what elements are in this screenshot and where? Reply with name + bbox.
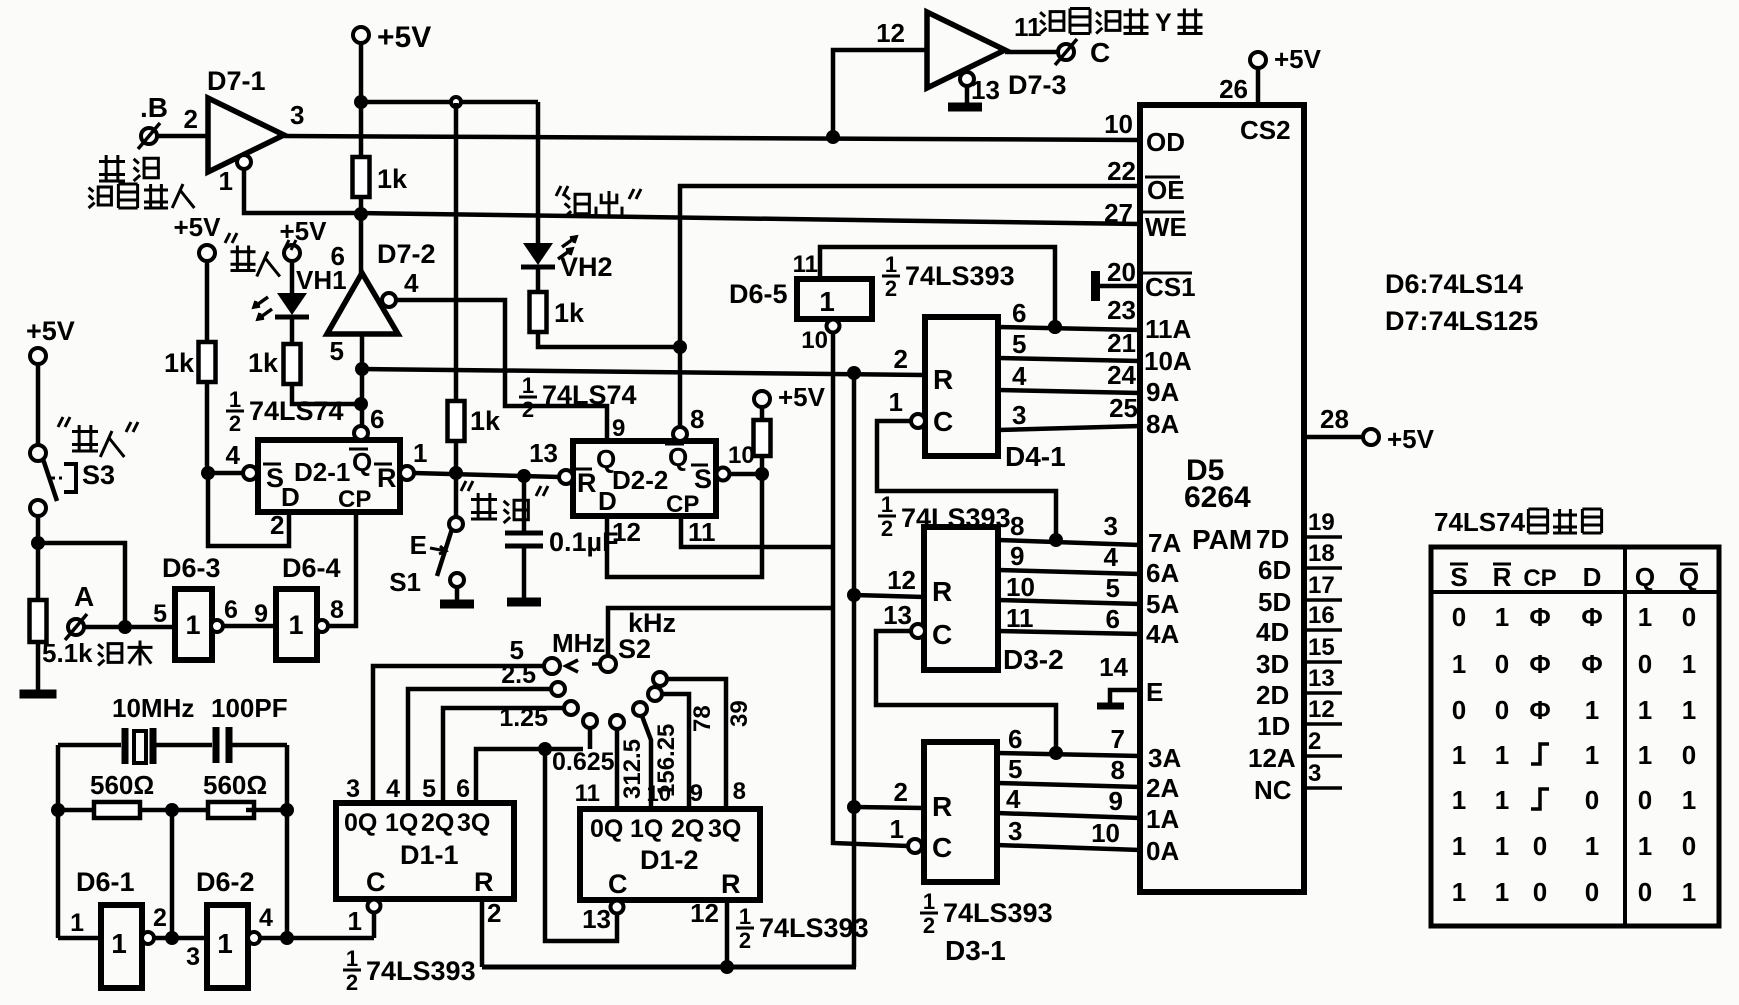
pin 1 bubble (clock of D1-1) xyxy=(368,900,381,913)
inverter D6-3 xyxy=(175,589,212,660)
svg-text:CS1: CS1 xyxy=(1145,272,1196,302)
svg-text:12: 12 xyxy=(876,18,905,48)
svg-text:CS2: CS2 xyxy=(1240,115,1291,145)
svg-text:10MHz: 10MHz xyxy=(112,693,194,723)
terminal +5V xyxy=(30,348,46,364)
svg-text:Q: Q xyxy=(668,442,688,472)
svg-text:8: 8 xyxy=(1111,755,1125,785)
wire xyxy=(36,516,41,600)
svg-text:1k: 1k xyxy=(248,348,279,378)
svg-text:11: 11 xyxy=(1014,12,1042,42)
svg-text:12: 12 xyxy=(612,517,641,547)
svg-text:1.25: 1.25 xyxy=(499,704,548,732)
svg-text:0.625: 0.625 xyxy=(552,748,615,776)
svg-text:2: 2 xyxy=(229,411,241,436)
svg-text:D1-1: D1-1 xyxy=(400,840,459,870)
svg-text:D: D xyxy=(1583,562,1602,592)
svg-text:14: 14 xyxy=(1099,652,1128,682)
svg-text:9: 9 xyxy=(612,415,625,442)
wire xyxy=(833,50,927,137)
wire 2A xyxy=(997,783,1140,787)
svg-text:0: 0 xyxy=(1638,877,1652,907)
svg-text:2: 2 xyxy=(184,104,198,134)
svg-text:D: D xyxy=(598,486,617,516)
svg-text:16: 16 xyxy=(1308,602,1335,629)
contact 39 xyxy=(653,672,667,686)
svg-text:5.1k: 5.1k xyxy=(42,638,93,668)
wire xyxy=(372,912,377,938)
pin 20 CS1 input xyxy=(1091,271,1100,301)
svg-text:8: 8 xyxy=(330,596,344,624)
svg-text:2D: 2D xyxy=(1256,680,1289,710)
svg-text:10A: 10A xyxy=(1144,346,1192,376)
contact 312.5 xyxy=(610,715,624,729)
svg-text:0: 0 xyxy=(1682,602,1696,632)
label 触发 (trigger) xyxy=(98,644,122,666)
svg-text:4: 4 xyxy=(259,904,273,932)
svg-text:1: 1 xyxy=(1452,785,1466,815)
svg-text:2: 2 xyxy=(894,777,908,807)
svg-text:2: 2 xyxy=(885,276,897,301)
svg-text:1: 1 xyxy=(923,889,935,914)
wire 1Q to 2.5MHz contact xyxy=(408,689,551,803)
pin 14 E tie xyxy=(1110,690,1140,704)
svg-text:OE: OE xyxy=(1147,175,1185,205)
inverter D6-4 xyxy=(276,589,317,660)
svg-text:2: 2 xyxy=(894,344,908,374)
wire xyxy=(56,745,61,938)
svg-text:1: 1 xyxy=(1585,695,1599,725)
svg-text:6: 6 xyxy=(1012,298,1026,328)
svg-text:560Ω: 560Ω xyxy=(90,770,154,800)
pin 13 bubble of D7-3 xyxy=(960,72,974,86)
svg-text:22: 22 xyxy=(1107,156,1136,186)
svg-text:1: 1 xyxy=(413,438,427,468)
wire xyxy=(244,169,358,213)
svg-text:27: 27 xyxy=(1104,198,1133,228)
svg-text:A: A xyxy=(74,581,94,612)
resistor 1k (pull-up on WE line) xyxy=(353,157,370,197)
svg-text:3: 3 xyxy=(1308,760,1321,787)
wire to clock of D1-1 xyxy=(260,936,374,941)
svg-text:.B: .B xyxy=(140,92,168,123)
svg-text:C: C xyxy=(366,867,386,897)
svg-text:1: 1 xyxy=(288,610,303,640)
svg-text:S: S xyxy=(694,464,712,494)
contact 78 xyxy=(648,687,662,701)
svg-text:1: 1 xyxy=(348,906,362,936)
terminal +5V xyxy=(199,245,215,261)
svg-text:Φ: Φ xyxy=(1581,602,1602,632)
svg-text:5A: 5A xyxy=(1146,589,1179,619)
svg-text:2Q: 2Q xyxy=(421,809,454,837)
svg-text:74LS393: 74LS393 xyxy=(905,261,1015,291)
svg-text:1k: 1k xyxy=(470,406,501,436)
wire OE net from Qbar of D2-2 xyxy=(680,186,1140,427)
svg-text:4: 4 xyxy=(1012,361,1027,391)
wire reset net xyxy=(414,473,560,477)
resistor 560 ohm (1) xyxy=(58,808,94,813)
node WE junction xyxy=(354,207,368,221)
svg-text:18: 18 xyxy=(1308,540,1335,567)
svg-text:3: 3 xyxy=(1008,816,1022,846)
wire xyxy=(292,384,361,404)
svg-text:kHz: kHz xyxy=(628,608,676,638)
svg-text:0: 0 xyxy=(1452,602,1466,632)
svg-text:+5V: +5V xyxy=(26,316,75,346)
svg-text:11: 11 xyxy=(793,251,818,278)
inverter D6-1 xyxy=(101,905,142,988)
wire 2Q to 1.25MHz contact xyxy=(443,708,564,803)
svg-text:Φ: Φ xyxy=(1529,695,1550,725)
svg-text:10: 10 xyxy=(801,327,828,354)
svg-text:13: 13 xyxy=(582,904,611,934)
label 单次信号输入 xyxy=(99,155,125,181)
svg-text:8: 8 xyxy=(733,778,746,805)
terminal A (trigger) xyxy=(68,619,84,635)
node +5V rail top xyxy=(353,27,369,43)
svg-text:D6-3: D6-3 xyxy=(162,553,221,583)
svg-text:OD: OD xyxy=(1146,127,1185,157)
inverter D6-5 xyxy=(797,279,872,319)
label 读出 (read) xyxy=(556,186,568,196)
svg-text:S: S xyxy=(1450,562,1467,592)
counter D3-2 (1/2 74LS393) xyxy=(924,527,998,670)
svg-text:1: 1 xyxy=(1638,831,1652,861)
pin 1 bubble (clock of D3-1) xyxy=(908,839,922,853)
svg-text:D6-5: D6-5 xyxy=(729,279,788,309)
terminal C to oscilloscope Y axis xyxy=(1058,44,1074,60)
svg-text:1: 1 xyxy=(885,252,897,277)
svg-text:0: 0 xyxy=(1682,740,1696,770)
counter D3-1 (1/2 74LS393) xyxy=(924,742,997,882)
pin 26 CS2 +5V xyxy=(1250,52,1266,68)
svg-text:9: 9 xyxy=(254,600,268,628)
pin 4 bubble (S of D2-1) xyxy=(243,466,257,480)
svg-text:6A: 6A xyxy=(1146,558,1179,588)
svg-text:6: 6 xyxy=(1106,604,1120,634)
svg-text:4: 4 xyxy=(1104,542,1119,572)
LED VH1 xyxy=(290,261,295,293)
terminal +5V xyxy=(284,245,300,261)
svg-text:D6-2: D6-2 xyxy=(196,867,255,897)
wire reset to D3-1 xyxy=(854,807,924,808)
wire to S input xyxy=(208,471,243,476)
svg-text:1: 1 xyxy=(1682,785,1696,815)
svg-text:C: C xyxy=(932,619,952,650)
svg-text:1: 1 xyxy=(739,904,751,929)
wire OD line (D7-1 output to RAM pin 10) xyxy=(284,136,1140,140)
wire xyxy=(157,134,208,139)
svg-text:25: 25 xyxy=(1109,393,1138,423)
svg-text:11: 11 xyxy=(688,517,716,547)
svg-text:4: 4 xyxy=(226,440,241,470)
svg-text:+5V: +5V xyxy=(174,212,222,242)
wire to trigger line xyxy=(38,543,125,627)
wire +5V branch xyxy=(361,100,538,105)
svg-text:D3-1: D3-1 xyxy=(945,935,1006,966)
RAM D5 6264 xyxy=(1140,105,1304,892)
pin 13 bubble (R of D2-2) xyxy=(559,470,573,484)
svg-text:15: 15 xyxy=(1308,634,1335,661)
wire 5A xyxy=(998,600,1140,604)
svg-text:Φ: Φ xyxy=(1529,649,1550,679)
svg-text:D6-1: D6-1 xyxy=(76,867,135,897)
svg-text:24: 24 xyxy=(1107,360,1136,390)
svg-text:D4-1: D4-1 xyxy=(1005,441,1066,472)
svg-text:5: 5 xyxy=(1008,754,1022,784)
wire R of D1-2 xyxy=(725,900,730,967)
svg-text:PAM: PAM xyxy=(1192,524,1252,555)
svg-text:D7-3: D7-3 xyxy=(1008,70,1067,100)
wire pin 11 of D6-5 xyxy=(820,247,1055,327)
pin 5 wire of D7-2 xyxy=(360,334,365,440)
svg-text:CP: CP xyxy=(666,491,699,518)
contact 1.25 xyxy=(564,701,578,715)
svg-text:D2-1: D2-1 xyxy=(294,457,350,487)
svg-text:D1-2: D1-2 xyxy=(640,845,699,875)
resistor 1k (reset pull-up) xyxy=(454,103,459,401)
svg-text:R: R xyxy=(932,576,952,607)
wire kHz bus from S2 xyxy=(608,608,831,656)
svg-text:2A: 2A xyxy=(1146,773,1179,803)
svg-text:0: 0 xyxy=(1533,831,1547,861)
svg-text:1: 1 xyxy=(1452,831,1466,861)
svg-text:2: 2 xyxy=(881,516,893,541)
pin 2 stub (12A) xyxy=(1304,754,1342,758)
wire D input tie xyxy=(208,473,289,546)
wire pin4 to Q of D2-2 xyxy=(396,300,607,441)
svg-text:7: 7 xyxy=(1111,724,1125,754)
svg-text:74LS393: 74LS393 xyxy=(759,913,869,943)
pin 15 stub (3D) xyxy=(1304,660,1342,664)
wire D6-5 output down to clock of D3-1 xyxy=(833,332,908,846)
resistor 1k (VH2) xyxy=(536,268,541,292)
svg-text:D2-2: D2-2 xyxy=(612,465,668,495)
resistor 5.1k xyxy=(30,600,47,642)
svg-text:5: 5 xyxy=(153,600,167,628)
svg-text:6D: 6D xyxy=(1258,555,1291,585)
svg-text:12: 12 xyxy=(690,898,719,928)
switch S2 pole xyxy=(600,656,616,672)
wire xyxy=(170,810,175,938)
svg-text:R: R xyxy=(474,867,494,897)
svg-text:+5V: +5V xyxy=(778,382,826,412)
svg-text:3: 3 xyxy=(186,943,200,971)
svg-text:R: R xyxy=(933,364,953,395)
svg-text:0A: 0A xyxy=(1146,836,1179,866)
svg-text:Q: Q xyxy=(352,447,372,477)
svg-text:CP: CP xyxy=(1523,565,1556,592)
svg-text:0: 0 xyxy=(1585,877,1599,907)
svg-text:+5V: +5V xyxy=(1387,424,1435,454)
svg-text:Φ: Φ xyxy=(1581,649,1602,679)
svg-text:0: 0 xyxy=(1585,785,1599,815)
svg-text:0: 0 xyxy=(1638,785,1652,815)
crystal 10MHz xyxy=(58,743,121,748)
svg-text:+5V: +5V xyxy=(1274,44,1322,74)
pin 1 bubble (clock of D4-1) xyxy=(911,414,925,428)
svg-text:78: 78 xyxy=(689,705,716,732)
svg-text:1: 1 xyxy=(1495,831,1509,861)
svg-text:6: 6 xyxy=(1008,724,1022,754)
wire xyxy=(359,214,364,273)
pin 6 bubble of D6-3 xyxy=(211,620,223,632)
svg-text:R: R xyxy=(932,791,952,822)
svg-text:1: 1 xyxy=(1682,877,1696,907)
svg-text:0Q: 0Q xyxy=(590,815,623,843)
svg-text:74LS393: 74LS393 xyxy=(366,956,476,986)
svg-text:8A: 8A xyxy=(1146,409,1179,439)
svg-text:VH1: VH1 xyxy=(296,265,347,295)
svg-text:1: 1 xyxy=(1495,740,1509,770)
svg-text:1: 1 xyxy=(1585,831,1599,861)
svg-text:6264: 6264 xyxy=(1184,481,1251,514)
svg-text:1D: 1D xyxy=(1257,711,1290,741)
svg-text:D3-2: D3-2 xyxy=(1003,644,1064,675)
svg-text:D: D xyxy=(281,482,300,512)
switch S1 (reset) xyxy=(454,473,459,517)
svg-text:1: 1 xyxy=(1452,877,1466,907)
svg-text:1: 1 xyxy=(1638,695,1652,725)
pin 10 bubble of D6-5 xyxy=(827,320,840,333)
pin 16 stub (4D) xyxy=(1304,628,1342,632)
capacitor 100PF xyxy=(213,727,220,763)
svg-text:13: 13 xyxy=(971,75,1000,105)
flip-flop D2-2 (1/2 74LS74) xyxy=(573,441,716,516)
resistor 1k (S pull-up of D2-2) xyxy=(754,391,770,407)
svg-text:2: 2 xyxy=(923,913,935,938)
contact 5 MHz xyxy=(544,658,560,674)
wire reset to D3-2 xyxy=(854,595,924,597)
label 接示波器Y轴 xyxy=(1040,12,1064,34)
svg-text:13: 13 xyxy=(883,600,912,630)
counter D4-1 (1/2 74LS393) xyxy=(925,317,998,456)
svg-text:6: 6 xyxy=(370,404,384,434)
svg-text:5: 5 xyxy=(1106,573,1120,603)
svg-text:20: 20 xyxy=(1107,257,1136,287)
pin 18 stub (6D) xyxy=(1304,566,1342,570)
svg-text:5: 5 xyxy=(330,336,344,366)
svg-text:10: 10 xyxy=(1091,818,1120,848)
svg-text:C: C xyxy=(932,832,952,863)
pin 3 stub (NC) xyxy=(1304,786,1342,790)
buffer D7-1 xyxy=(208,98,284,172)
svg-text:23: 23 xyxy=(1107,295,1136,325)
svg-text:10: 10 xyxy=(1104,109,1133,139)
svg-text:9: 9 xyxy=(690,780,703,807)
wire cascade to clock of D1-2 xyxy=(545,749,617,941)
svg-text:1: 1 xyxy=(889,387,903,417)
label 复位 (reset) xyxy=(461,481,473,491)
svg-text:6: 6 xyxy=(224,596,238,624)
svg-text:11: 11 xyxy=(575,780,600,807)
svg-text:0: 0 xyxy=(1495,695,1509,725)
wire to CP of D2-1 xyxy=(328,512,356,626)
svg-text:560Ω: 560Ω xyxy=(203,770,267,800)
label 写入 (write) xyxy=(225,233,237,243)
ground xyxy=(20,690,57,699)
svg-text:12: 12 xyxy=(887,565,916,595)
wire 1A xyxy=(997,813,1140,818)
buffer D7-3 xyxy=(927,12,1005,88)
wire D tie of D2-2 xyxy=(607,474,762,577)
pin 6 bubble (Qbar of D2-1) xyxy=(354,426,368,440)
svg-text:S1: S1 xyxy=(389,567,421,597)
svg-text:WE: WE xyxy=(1145,212,1187,242)
svg-text:R: R xyxy=(1493,562,1512,592)
svg-text:3: 3 xyxy=(290,100,304,130)
wire xyxy=(1005,50,1058,55)
svg-text:7A: 7A xyxy=(1148,528,1181,558)
wire clock cascade from D3-2 xyxy=(877,421,1056,540)
capacitor 0.1uF xyxy=(522,476,527,533)
svg-text:3: 3 xyxy=(1012,400,1026,430)
ground xyxy=(965,86,970,104)
svg-text:MHz: MHz xyxy=(552,628,605,658)
svg-text:0: 0 xyxy=(1638,649,1652,679)
svg-text:D6:74LS14: D6:74LS14 xyxy=(1385,269,1523,299)
buffer D7-2 xyxy=(327,273,398,334)
svg-text:Q: Q xyxy=(1635,562,1655,592)
svg-text:2: 2 xyxy=(1308,728,1321,755)
wire xyxy=(538,332,680,347)
svg-text:1: 1 xyxy=(1452,740,1466,770)
svg-text:Y: Y xyxy=(1155,9,1172,37)
svg-text:3: 3 xyxy=(346,775,360,803)
svg-text:12A: 12A xyxy=(1248,743,1296,773)
wire CP of D2-2 from divider xyxy=(681,516,833,547)
svg-text:8: 8 xyxy=(1010,511,1024,541)
flip-flop D2-1 (1/2 74LS74) xyxy=(258,440,400,512)
svg-text:CP: CP xyxy=(338,486,371,513)
svg-text:5D: 5D xyxy=(1258,587,1291,617)
svg-text:1: 1 xyxy=(229,387,241,412)
pin 1 bubble of D7-1 xyxy=(237,155,251,169)
wire reset bus vertical xyxy=(852,373,857,967)
counter D1-1 (1/2 74LS393) xyxy=(336,803,514,899)
wire 0A xyxy=(997,845,1140,850)
svg-text:0Q: 0Q xyxy=(344,809,377,837)
resistor 1k (VH1) xyxy=(290,317,295,344)
inverter D6-2 xyxy=(207,905,248,988)
pin 28 +5V xyxy=(1304,435,1363,440)
pin 8 bubble (Qbar of D2-2) xyxy=(673,427,687,441)
wire xyxy=(729,472,762,477)
contact 0.625 xyxy=(583,714,597,728)
svg-text:3Q: 3Q xyxy=(457,809,490,837)
svg-text:0: 0 xyxy=(1682,831,1696,861)
svg-text:S3: S3 xyxy=(82,460,115,490)
svg-text:3A: 3A xyxy=(1148,743,1181,773)
svg-text:Φ: Φ xyxy=(1529,602,1550,632)
svg-text:26: 26 xyxy=(1219,74,1248,104)
svg-text:1A: 1A xyxy=(1146,804,1179,834)
pin 13 stub (2D) xyxy=(1304,691,1342,695)
svg-text:6: 6 xyxy=(456,775,470,803)
svg-text:2: 2 xyxy=(522,397,534,422)
svg-text:1: 1 xyxy=(111,928,127,959)
svg-text:2.5: 2.5 xyxy=(501,661,536,689)
svg-text:1: 1 xyxy=(1682,649,1696,679)
svg-text:10: 10 xyxy=(1006,572,1035,602)
wire 8A xyxy=(998,426,1140,430)
wire 7A xyxy=(998,540,1140,545)
svg-text:1: 1 xyxy=(70,909,84,937)
svg-text:4A: 4A xyxy=(1146,619,1179,649)
svg-text:11: 11 xyxy=(1006,603,1034,633)
pin 2 bubble of D6-1 xyxy=(142,932,154,944)
